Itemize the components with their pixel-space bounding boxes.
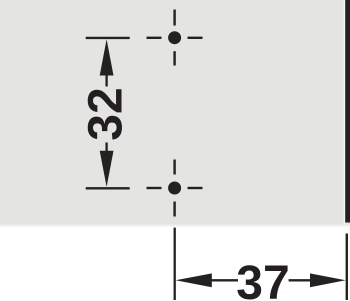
hole H2 crosshair down dash bbox=[173, 202, 175, 217]
dim32 upper arrowhead bbox=[100, 39, 114, 75]
hole H2 crosshair left dash bbox=[147, 187, 162, 189]
dim37 right shaft bbox=[289, 279, 311, 281]
panel face (grey board) bbox=[0, 0, 350, 224]
dim37 right extension line (panel edge) bbox=[346, 234, 348, 301]
dim32 upper shaft bbox=[105, 74, 107, 87]
dim32 lower arrowhead bbox=[100, 151, 114, 187]
dim32 bottom extension line bbox=[86, 187, 130, 189]
hole H1 (top) centre dot bbox=[168, 31, 181, 44]
hole H1 crosshair down dash bbox=[173, 51, 175, 65]
dim37 right arrowhead bbox=[310, 273, 346, 287]
svg-text:37: 37 bbox=[236, 257, 289, 301]
hole H1 crosshair right dash bbox=[188, 37, 203, 39]
panel edge (black band, board cross-section) bbox=[345, 0, 350, 223]
dim37 left arrowhead bbox=[176, 273, 212, 287]
panel edge highlight strip bbox=[344, 0, 346, 224]
hole H2 crosshair right dash bbox=[188, 187, 203, 189]
hole H2 crosshair up dash bbox=[173, 160, 175, 175]
hole H2 (bottom) centre dot bbox=[168, 182, 181, 195]
svg-text:32: 32 bbox=[79, 87, 132, 140]
dim37 left shaft bbox=[211, 279, 238, 281]
dim37 left extension line (hole axis) bbox=[174, 228, 176, 300]
panel face bottom fade edge bbox=[0, 224, 350, 227]
dim32 lower shaft bbox=[105, 143, 107, 152]
hole H1 crosshair left dash bbox=[147, 37, 162, 39]
dim32 top extension line bbox=[86, 37, 130, 39]
hole H1 crosshair up dash bbox=[173, 10, 175, 26]
